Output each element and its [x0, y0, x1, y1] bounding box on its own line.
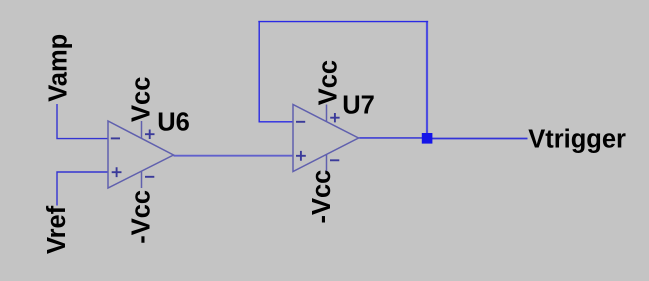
svg-text:Vcc: Vcc [128, 77, 156, 122]
svg-text:U6: U6 [157, 108, 190, 136]
node junction square at U7 output [422, 133, 433, 144]
U6 positive supply pin [141, 121, 143, 139]
U7 negative supply pin [326, 154, 328, 171]
op-amp U6 body [108, 121, 174, 188]
wire feedback left vertical [258, 21, 260, 122]
op-amp U7 [293, 105, 359, 172]
U7 minus marker at negative supply [330, 159, 339, 161]
U6 negative supply pin [141, 171, 143, 188]
svg-text:Vamp: Vamp [45, 34, 73, 102]
svg-text:-Vcc: -Vcc [127, 190, 155, 244]
wire feedback vertical from output junction [426, 21, 428, 136]
U7 positive supply pin [326, 105, 328, 123]
wire Vamp lead [57, 104, 108, 139]
U7 plus marker at positive supply [330, 113, 339, 122]
wire feedback top horizontal [258, 21, 428, 23]
wire U6 output to U7 noninverting input [174, 155, 294, 157]
wire Vref lead [57, 172, 108, 206]
svg-text:-Vcc: -Vcc [308, 170, 336, 224]
U6 inverting input minus marker [111, 137, 120, 139]
svg-text:Vtrigger: Vtrigger [528, 126, 626, 154]
U6 plus marker at positive supply [145, 130, 155, 140]
wire U7 output to junction [359, 137, 423, 139]
svg-text:Vcc: Vcc [315, 60, 343, 105]
U6 minus marker at negative supply [145, 176, 154, 178]
op-amp U6 [108, 121, 174, 188]
U6 noninverting input plus marker [112, 167, 122, 177]
wire feedback into U7 inverting input [259, 121, 294, 123]
svg-text:Vref: Vref [43, 205, 71, 254]
wire junction to Vtrigger [432, 138, 528, 140]
op-amp U7 body [293, 105, 359, 172]
U7 inverting input minus marker [296, 121, 305, 123]
U7 noninverting input plus marker [296, 151, 306, 161]
svg-text:U7: U7 [342, 91, 375, 119]
